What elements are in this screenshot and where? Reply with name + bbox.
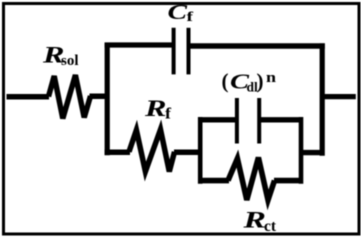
capacitor C_f right plate: [187, 28, 191, 75]
wire bottom branch left: [105, 150, 130, 156]
wire inner box bottom left: [198, 178, 229, 184]
svg-text:R: R: [144, 96, 167, 121]
wire inner box right vertical: [299, 117, 304, 184]
wire output terminal: [322, 94, 356, 99]
svg-text:(: (: [222, 69, 229, 93]
wire inner box bottom right: [274, 178, 303, 184]
wire inner box top left: [198, 117, 235, 122]
capacitor C_dl right plate: [257, 98, 261, 144]
resistor R_sol zigzag: [49, 75, 91, 119]
svg-text:f: f: [165, 106, 172, 123]
wire inner box to right vertical: [301, 150, 325, 155]
wire inner box left vertical: [198, 117, 203, 184]
svg-text:C: C: [168, 0, 188, 24]
wire R_sol to left node: [90, 94, 109, 100]
resistor R_f zigzag: [129, 130, 175, 172]
svg-text:R: R: [242, 208, 266, 234]
wire inner box top right: [261, 117, 303, 122]
wire top branch right: [189, 43, 325, 49]
svg-text:): ): [257, 69, 264, 93]
svg-text:n: n: [266, 70, 277, 86]
wire right vertical: [320, 43, 325, 155]
capacitor C_f left plate: [172, 28, 176, 75]
wire input terminal: [7, 94, 50, 100]
wire top branch left: [105, 42, 175, 47]
wire left vertical node: [105, 43, 110, 155]
resistor R_ct zigzag: [228, 158, 275, 201]
capacitor C_dl left plate: [235, 98, 239, 144]
svg-text:f: f: [187, 9, 194, 24]
svg-text:sol: sol: [61, 53, 79, 69]
wire R_f to inner box: [174, 150, 202, 156]
svg-text:ct: ct: [264, 218, 277, 235]
